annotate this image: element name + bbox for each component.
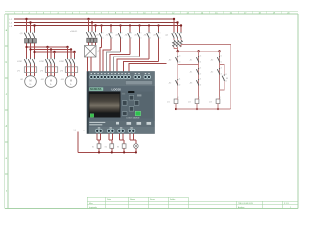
svg-text:3: 3 [103,32,104,34]
circuit breaker F1 [70,30,97,42]
svg-text:d: d [6,124,8,128]
PLC display [89,92,121,118]
svg-text:L3: L3 [10,26,13,28]
svg-text:c: c [6,93,8,96]
svg-text:3: 3 [160,32,161,34]
wire link rung1-rung2 [178,64,199,66]
contact S12 rung3 [211,56,220,63]
wires: taps from bus to main breaker Q1 [27,19,35,32]
svg-text:31: 31 [200,79,202,81]
svg-text:21: 21 [200,68,202,70]
svg-text:-K2M: -K2M [39,61,44,63]
motor M3 [61,76,77,88]
svg-text:-Q1: -Q1 [20,33,23,35]
svg-text:4: 4 [131,38,132,40]
svg-text:L2: L2 [10,23,13,25]
svg-text:LOGO! 230RCE: LOGO! 230RCE [127,117,141,119]
svg-text:-K3: -K3 [209,102,212,104]
switch S4 [125,26,131,55]
wire S5 to input I5 [113,57,139,72]
svg-text:Firma: Firma [150,198,156,201]
svg-text:-F3: -F3 [40,71,43,73]
svg-text:x: x [84,130,85,132]
svg-text:L1: L1 [10,19,13,21]
svg-text:31: 31 [179,79,181,81]
overload relay F2 [17,67,37,73]
svg-text:14: 14 [221,62,223,64]
svg-text:-Q2: -Q2 [165,35,168,37]
switch S5 [134,26,140,57]
junction dots on bus at F1 taps [87,18,96,27]
contactor K1M [17,58,35,65]
wires: Q1 to distribution [27,43,35,58]
PLC RUN LED [90,114,94,118]
svg-text:4: 4 [160,38,161,40]
svg-text:e: e [6,157,8,160]
contactor coil K3M [117,144,126,153]
wire S2 to input I2 [103,50,111,72]
wires: PLC output Q2 stubs [109,134,113,144]
svg-text:-K2: -K2 [188,102,191,104]
svg-text:-F4: -F4 [60,71,63,73]
junction dots top rail [177,50,221,52]
svg-text:Folder: Folder [170,198,176,201]
svg-text:1 1: 1 1 [74,130,77,132]
wires: taps from bus to contactor Q2 (ladder feed) [174,19,181,32]
svg-text:13: 13 [221,56,223,58]
svg-text:-S6: -S6 [144,35,147,37]
svg-text:-K1: -K1 [190,72,193,74]
switch S7 [153,26,159,62]
svg-text:-S4: -S4 [125,35,128,37]
contactor coil K1M [92,144,101,153]
row ticks and letters [5,46,8,174]
power supply T1 [85,46,101,58]
svg-text:32: 32 [179,85,181,87]
svg-text:3: 3 [141,32,142,34]
svg-text:TNDL 09.08.2019: TNDL 09.08.2019 [238,203,253,205]
switch S1 [96,26,102,48]
svg-text:-S5: -S5 [134,35,137,37]
contactor K3M [59,58,75,65]
wire S3 to input I3 [107,52,121,71]
contact S10 rung1 [169,56,178,63]
svg-text:M: M [50,80,52,83]
wire inner branch bottom [220,81,225,90]
svg-text:-S7: -S7 [153,35,156,37]
svg-text:-K1: -K1 [167,102,170,104]
svg-text:-K1M: -K1M [17,61,22,63]
svg-text:LOGO!: LOGO! [112,87,122,91]
svg-text:4: 4 [150,38,151,40]
junction dots at bus ends [173,18,182,27]
overload relay F4 [60,67,78,73]
wire: distribution phase B [31,49,72,51]
wire S7 to input I7 [123,61,158,71]
svg-text:4: 4 [122,38,123,40]
wire ladder aux to input I8 [129,64,167,72]
svg-text:-K3: -K3 [190,83,193,85]
svg-text:3: 3 [131,32,132,34]
svg-text:=CA1-F1: =CA1-F1 [70,30,77,33]
svg-text:4: 4 [112,38,113,40]
relay coil K11 [167,99,178,109]
wire: distribution phase A [27,46,68,48]
svg-text:32: 32 [200,85,202,87]
net L3 [10,26,182,29]
svg-text:-K2: -K2 [169,83,172,85]
wire: distribution phase C [35,51,75,53]
PLC U1 (Siemens LOGO! 230RCE) [87,72,155,134]
wire: coil return rail [78,151,136,153]
svg-text:-M1: -M1 [20,79,23,81]
switch S6 [144,26,150,60]
contact K aux rung2 row2 [190,68,199,75]
overload relay F3 [40,67,58,73]
ladder rung 2 vertical [198,51,200,99]
svg-text:22: 22 [221,74,223,76]
junction dots distribution [25,46,75,53]
junction dots ladder bottom [175,108,219,110]
column numbers [14,12,290,14]
svg-text:K3: K3 [226,78,228,80]
column ticks [22,11,281,14]
svg-text:13: 13 [200,56,202,58]
wire S6 to input I6 [117,59,149,72]
PLC label strip text [89,122,151,125]
relay coil K12 [188,99,199,109]
wires: contactor to overload branch1 [27,65,75,77]
contactor coil K2M [105,144,114,153]
wires: PLC output Q3 stubs [119,134,124,144]
junction dots on bus at Q1 taps [25,18,35,27]
PLC SIEMENS logo [89,87,103,90]
thermal overload F5 [173,40,183,47]
svg-text:SIEMENS: SIEMENS [90,87,102,91]
circuit breaker Q1 [20,32,37,44]
svg-text:3: 3 [122,32,123,34]
svg-text:K1: K1 [92,147,94,149]
svg-text:b: b [6,60,8,64]
wires: taps from bus to breaker F1 [89,19,96,31]
svg-text:3: 3 [112,32,113,34]
contact K aux rung3 row2 [211,68,220,75]
svg-text:21: 21 [221,68,223,70]
wires: branch 3 drops [68,47,75,58]
pin number labels ladder [177,56,227,100]
wire: left return riser [74,130,85,152]
svg-text:44: 44 [225,81,227,83]
title block [87,197,298,208]
svg-text:-K2: -K2 [211,72,214,74]
contactor Q2 [165,32,181,39]
junction dots on L3 at switch taps [100,24,159,26]
svg-text:-F2: -F2 [17,71,20,73]
wires: F1 to power supply T1 [89,42,96,45]
wire: ladder bottom rail [176,108,231,110]
svg-text:13: 13 [179,56,181,58]
wire: ladder top rail [176,50,220,52]
contact S11 rung2 [190,56,199,63]
svg-text:Name: Name [130,199,135,201]
svg-text:-S2: -S2 [106,35,109,37]
net L1 [10,19,175,21]
wires: Q2 poles to overload [174,39,181,52]
PLC keypad panel [122,91,154,119]
svg-text:4: 4 [141,38,142,40]
svg-text:K3: K3 [117,147,119,149]
wires: PLC output Q1 stubs [97,134,101,144]
motor M2 [41,76,57,88]
svg-text:M: M [70,80,72,83]
ladder rung 1 vertical [177,51,179,99]
junction dots on return rail [98,151,137,153]
net L2 [10,23,178,25]
relay coil K13 [209,99,220,109]
svg-text:22: 22 [200,74,202,76]
wires: branch 2 drops [48,47,55,58]
svg-text:K2: K2 [105,147,107,149]
svg-text:M: M [30,80,32,83]
svg-text:3: 3 [150,32,151,34]
switch S3 [115,26,121,53]
inner branch vertical [220,65,225,75]
svg-text:Inspirado: Inspirado [89,206,97,209]
switch S2 [106,26,112,50]
svg-text:-S1: -S1 [190,60,193,62]
svg-text:4: 4 [103,38,104,40]
ladder rung 3 vertical [219,51,221,99]
svg-text:a: a [6,29,8,32]
svg-text:-S3: -S3 [115,35,118,37]
svg-text:-M2: -M2 [41,79,44,81]
PLC top terminal screws [90,75,151,78]
svg-text:14: 14 [179,62,181,64]
svg-text:-S0: -S0 [169,60,172,62]
wires: PLC output Q4 stubs [130,134,136,144]
contact K aux rung1 row3 [169,79,178,86]
PLC bottom terminal labels [98,127,133,128]
svg-text:-S2: -S2 [211,60,214,62]
svg-text:Andrew: Andrew [238,206,245,209]
svg-text:Date: Date [107,198,111,201]
svg-text:14: 14 [200,62,202,64]
pin number labels switches [103,32,161,39]
PLC bottom terminal screws [96,129,135,132]
svg-text:1: 1 [290,207,291,209]
svg-text:-S1: -S1 [96,35,99,37]
svg-text:f: f [6,189,7,193]
signal lamp H1 [134,144,139,153]
wire S1 to input I1 [100,48,102,72]
svg-text:P. 1/1: P. 1/1 [284,203,289,205]
motor M1 [20,76,36,88]
PLC top terminal labels [91,73,150,74]
svg-text:-M3: -M3 [61,79,64,81]
contactor K2M [39,58,55,65]
svg-text:43: 43 [225,74,227,76]
wires: T1 outputs to PLC L+/M terminals [88,57,92,72]
wire: phase feed to right rail [181,45,231,110]
contact K aux inner [222,75,228,82]
wire S4 to input I4 [110,54,130,71]
contact K aux rung2 row3 [190,79,199,86]
svg-text:-K3M: -K3M [59,61,64,63]
